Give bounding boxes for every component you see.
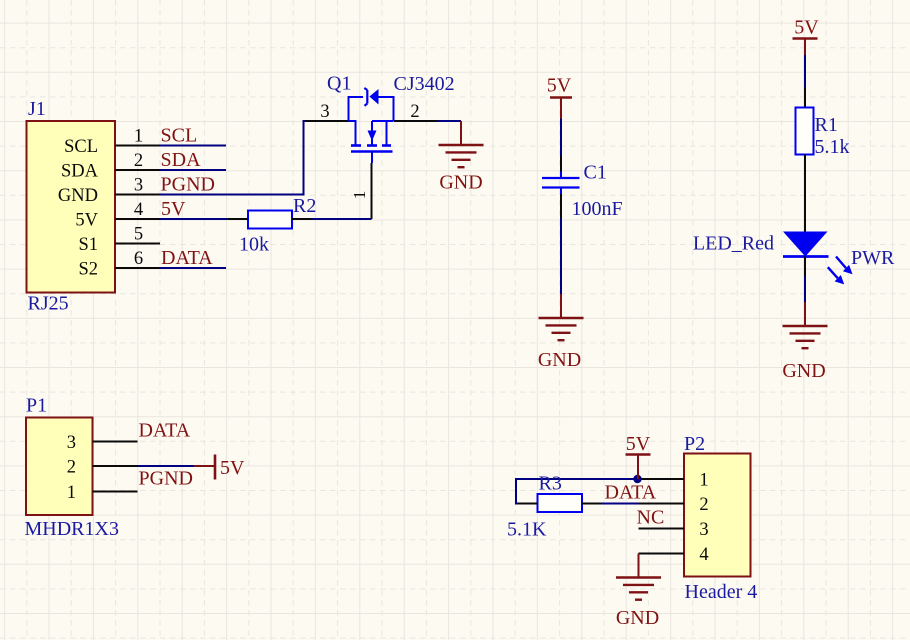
wire R2 to Q1 gate bbox=[312, 218, 372, 220]
svg-text:S1: S1 bbox=[78, 235, 98, 255]
svg-text:4: 4 bbox=[134, 200, 143, 220]
P2 pin 4 bbox=[639, 545, 709, 565]
ground GND (Q1) bbox=[439, 121, 484, 167]
svg-text:2: 2 bbox=[699, 495, 708, 515]
svg-text:3: 3 bbox=[67, 433, 76, 453]
R1 top pin bbox=[804, 88, 806, 108]
svg-text:5: 5 bbox=[134, 225, 143, 245]
LED light arrow upper bbox=[836, 257, 853, 275]
Q1 channel structure bbox=[349, 121, 394, 163]
power 5V symbol (P2) bbox=[626, 455, 651, 480]
connector J1 body bbox=[27, 121, 116, 293]
P1 pin 2 bbox=[67, 457, 138, 477]
connector P1 body bbox=[26, 418, 93, 516]
svg-text:10k: 10k bbox=[239, 234, 269, 256]
svg-text:GND: GND bbox=[439, 172, 482, 194]
svg-text:6: 6 bbox=[134, 249, 143, 269]
P2 pin 3 bbox=[639, 520, 709, 540]
svg-text:J1: J1 bbox=[28, 98, 46, 120]
wire net SDA bbox=[160, 169, 226, 171]
ground GND (P2) bbox=[616, 554, 661, 600]
svg-text:100nF: 100nF bbox=[572, 198, 623, 220]
svg-text:3: 3 bbox=[134, 176, 143, 196]
svg-text:1: 1 bbox=[699, 470, 708, 490]
transistor Q1 gate pin 1 bbox=[371, 163, 373, 219]
svg-text:SCL: SCL bbox=[64, 137, 98, 157]
LED cathode bar bbox=[783, 255, 829, 258]
svg-text:2: 2 bbox=[134, 151, 143, 171]
connector P2 body bbox=[684, 454, 751, 577]
svg-text:P1: P1 bbox=[26, 395, 47, 417]
R3 left pin bbox=[518, 503, 538, 505]
transistor Q1 pin 2 bbox=[394, 120, 438, 122]
svg-text:GND: GND bbox=[538, 349, 581, 371]
svg-text:3: 3 bbox=[699, 520, 708, 540]
svg-text:2: 2 bbox=[67, 457, 76, 477]
J1 pin 1 (SCL) bbox=[64, 137, 160, 157]
P1 pin 1 bbox=[67, 483, 138, 503]
resistor R2 body bbox=[248, 211, 292, 229]
junction dot (5V / pin1) bbox=[633, 475, 641, 483]
svg-text:5.1K: 5.1K bbox=[507, 519, 547, 541]
svg-text:5V: 5V bbox=[220, 457, 245, 479]
svg-text:1: 1 bbox=[350, 191, 369, 200]
J1 pin 4 (5V) bbox=[75, 210, 160, 230]
svg-text:PWR: PWR bbox=[851, 247, 895, 269]
svg-text:GND: GND bbox=[782, 360, 825, 382]
LED bottom pin bbox=[804, 257, 806, 277]
svg-text:1: 1 bbox=[134, 127, 143, 147]
svg-text:5V: 5V bbox=[626, 433, 651, 455]
wire 5V to R1 bbox=[804, 55, 806, 88]
R1 bottom pin / wire to LED bbox=[804, 155, 806, 232]
R2 left pin bbox=[228, 218, 248, 220]
J1 pin 6 (S2) bbox=[78, 259, 160, 279]
wire net PGND to Q1 pin 3 bbox=[160, 121, 305, 195]
wire 5V to C1 bbox=[560, 119, 562, 156]
J1 pin 2 (SDA) bbox=[61, 161, 160, 181]
svg-text:2: 2 bbox=[410, 102, 419, 122]
svg-text:SDA: SDA bbox=[161, 149, 202, 171]
svg-text:MHDR1X3: MHDR1X3 bbox=[25, 518, 119, 540]
svg-text:3: 3 bbox=[320, 102, 329, 122]
wire net SCL bbox=[160, 145, 226, 147]
wire net 5V to R2 bbox=[160, 218, 228, 220]
svg-text:C1: C1 bbox=[584, 162, 607, 184]
wire Q1 pin 2 to ground bbox=[438, 120, 462, 122]
J1 pin 3 (GND) bbox=[58, 186, 160, 206]
resistor R3 body bbox=[538, 494, 583, 512]
P2 pin 2 bbox=[639, 495, 709, 515]
ground GND (C1) bbox=[539, 294, 584, 340]
svg-text:GND: GND bbox=[58, 186, 98, 206]
svg-text:NC: NC bbox=[637, 507, 665, 529]
svg-text:SCL: SCL bbox=[161, 125, 198, 147]
svg-text:4: 4 bbox=[699, 545, 708, 565]
wire P2 pin 1 loop to R3 bbox=[516, 479, 639, 504]
svg-text:P2: P2 bbox=[684, 433, 705, 455]
wire C1 to ground bbox=[560, 218, 562, 294]
svg-text:R3: R3 bbox=[539, 473, 562, 495]
svg-text:DATA: DATA bbox=[605, 482, 657, 504]
svg-text:Q1: Q1 bbox=[327, 73, 351, 95]
LED light arrow lower bbox=[828, 267, 844, 284]
wire P2 pin 4 to ground bbox=[638, 553, 640, 555]
transistor Q1 pin 3 bbox=[305, 120, 349, 122]
svg-text:DATA: DATA bbox=[161, 247, 213, 269]
svg-text:Header 4: Header 4 bbox=[685, 581, 758, 603]
wire net DATA bbox=[160, 267, 226, 269]
svg-text:5.1k: 5.1k bbox=[815, 136, 850, 158]
svg-text:1: 1 bbox=[67, 483, 76, 503]
svg-text:CJ3402: CJ3402 bbox=[394, 73, 455, 95]
svg-text:5V: 5V bbox=[794, 17, 819, 39]
P2 pin 1 bbox=[639, 470, 709, 490]
R2 right pin bbox=[292, 218, 312, 220]
P1 pin 3 bbox=[67, 433, 138, 453]
resistor R1 body bbox=[796, 108, 814, 155]
ground GND (R1 branch) bbox=[783, 302, 828, 348]
svg-text:DATA: DATA bbox=[139, 420, 191, 442]
svg-text:5V: 5V bbox=[161, 198, 186, 220]
C1 bottom pin bbox=[560, 194, 562, 218]
J1 pin 5 (S1) bbox=[78, 235, 160, 255]
svg-text:S2: S2 bbox=[78, 259, 98, 279]
svg-text:LED_Red: LED_Red bbox=[693, 233, 774, 255]
power 5V symbol (C1) bbox=[550, 98, 572, 119]
power 5V symbol (R1) bbox=[793, 39, 818, 56]
svg-text:R1: R1 bbox=[815, 114, 838, 136]
svg-text:SDA: SDA bbox=[61, 161, 99, 181]
wire LED to ground bbox=[804, 277, 806, 303]
capacitor C1 plates bbox=[542, 172, 580, 195]
wire R3 to P2 pin 2 bbox=[602, 503, 639, 505]
wire P1 pin 2 to 5V bbox=[138, 465, 195, 467]
svg-text:5V: 5V bbox=[75, 210, 98, 230]
svg-text:GND: GND bbox=[616, 607, 659, 629]
C1 top pin bbox=[560, 156, 562, 172]
svg-text:5V: 5V bbox=[547, 75, 572, 97]
power 5V symbol (P1, horizontal) bbox=[194, 455, 215, 480]
R3 right pin bbox=[582, 503, 602, 505]
svg-text:PGND: PGND bbox=[139, 468, 193, 490]
svg-text:RJ25: RJ25 bbox=[28, 293, 69, 315]
Q1 body diode loop bbox=[349, 88, 394, 121]
svg-text:PGND: PGND bbox=[161, 174, 215, 196]
LED LED_Red triangle bbox=[783, 232, 828, 257]
svg-text:R2: R2 bbox=[293, 195, 316, 217]
